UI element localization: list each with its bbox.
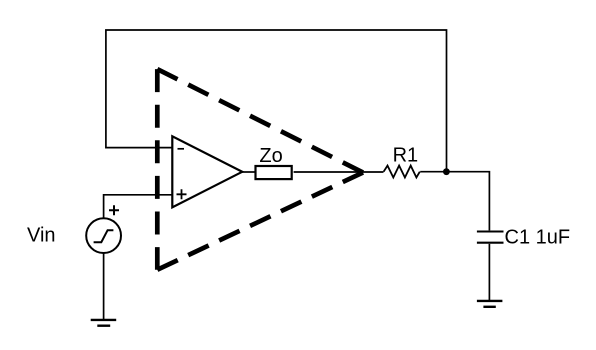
wire feedback loop (minus input up, across top, down to output node)	[106, 30, 447, 172]
wire op-amp output to Zo	[242, 171, 255, 173]
svg-text:R1: R1	[393, 145, 419, 167]
wire capacitor to ground	[488, 244, 490, 300]
source Vin (sine-limited step symbol)	[86, 218, 121, 253]
ground (right, under C1)	[477, 301, 503, 307]
wire Vin to ground	[103, 253, 105, 320]
ground (left, under Vin)	[91, 320, 117, 326]
svg-text:C1 1uF: C1 1uF	[505, 227, 571, 249]
capacitor C1	[477, 232, 504, 243]
wire R1 to node	[420, 171, 446, 173]
dashed op-amp macromodel boundary (large triangle)	[157, 69, 363, 270]
wire Zo to R1	[294, 171, 384, 173]
wire node to capacitor	[447, 172, 490, 231]
op-amp (ideal inner amplifier)	[172, 136, 242, 207]
svg-text:Vin: Vin	[27, 225, 56, 247]
plus polarity mark at Vin	[109, 205, 119, 215]
wire plus input from Vin source	[104, 195, 172, 218]
node junction dot	[443, 168, 450, 175]
resistor R1 (zigzag)	[384, 166, 420, 178]
svg-text:Zo: Zo	[259, 145, 282, 167]
resistor Zo (box style)	[256, 166, 292, 179]
